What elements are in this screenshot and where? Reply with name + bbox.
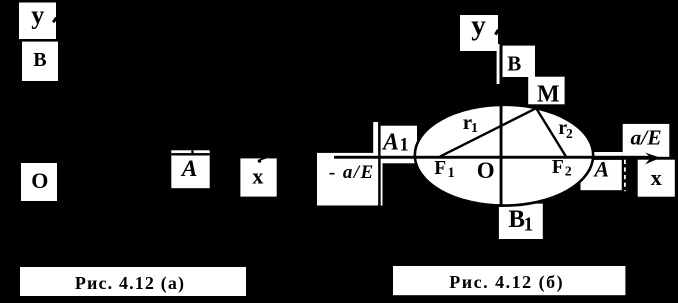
- caption box (b): [393, 266, 625, 295]
- svg-text:F: F: [434, 158, 446, 179]
- right directrix core (fig b, visible between A box and white strip): [622, 159, 624, 191]
- svg-text:B: B: [33, 49, 46, 71]
- svg-text:1: 1: [400, 135, 409, 155]
- x-axis arrowhead (fig a, visible part over x box): [260, 158, 266, 160]
- label box O (fig a): [21, 163, 57, 201]
- svg-text:a/E: a/E: [631, 126, 662, 150]
- x-axis segment crossing A box (fig a): [171, 153, 209, 155]
- label box B1 (fig b): [499, 204, 543, 239]
- svg-text:1: 1: [471, 121, 478, 136]
- label box A1 (fig b): [379, 126, 417, 164]
- label box x (fig a): [240, 158, 276, 196]
- svg-text:A: A: [593, 156, 610, 181]
- radius line r2 (M to F2): [536, 108, 566, 156]
- svg-text:2: 2: [566, 126, 573, 141]
- label box M (fig b): [528, 77, 564, 105]
- ellipse: [415, 105, 593, 206]
- svg-text:- a/E: - a/E: [329, 162, 375, 183]
- svg-text:O: O: [31, 168, 48, 193]
- label box a/E (fig b): [623, 124, 670, 157]
- label box B (fig a): [22, 42, 58, 81]
- svg-text:A: A: [180, 156, 198, 182]
- svg-text:y: y: [31, 0, 44, 29]
- x-axis core (fig b): [334, 156, 651, 159]
- svg-text:x: x: [252, 163, 263, 188]
- label box A (fig b): [581, 160, 622, 190]
- label box A (fig a, white bg extends above x-axis line): [171, 150, 209, 188]
- y-axis arrowhead (fig a, visible barb over y box): [53, 18, 56, 23]
- tick at A (fig a): [191, 150, 193, 155]
- white x-axis sliver right of ellipse (fig b): [593, 152, 623, 156]
- label box x (fig b): [638, 160, 675, 197]
- svg-text:y: y: [471, 9, 486, 41]
- svg-text:1: 1: [524, 215, 534, 236]
- svg-text:O: O: [477, 158, 495, 183]
- svg-text:Рис. 4.12 (а): Рис. 4.12 (а): [75, 273, 185, 294]
- white strip left of directrix (fig b): [373, 122, 378, 155]
- y-axis arrowhead (fig b upper part hidden on black): [501, 25, 506, 36]
- label box B (fig b): [502, 46, 536, 77]
- svg-text:1: 1: [448, 165, 455, 181]
- white strip right of directrix below axis (fig b): [381, 161, 383, 206]
- right directrix dashed white line (fig b): [624, 160, 626, 192]
- white strip left of y-axis (b): [497, 44, 500, 84]
- y-axis arrowhead (fig b, visible barb over y box): [495, 30, 498, 35]
- svg-text:Рис. 4.12 (б): Рис. 4.12 (б): [449, 272, 564, 293]
- x-axis arrowhead (fig b): [645, 153, 660, 165]
- svg-text:2: 2: [565, 163, 572, 178]
- radius line r1 (F1 to M): [440, 108, 536, 156]
- svg-text:x: x: [651, 165, 662, 190]
- svg-text:A: A: [381, 129, 399, 155]
- left directrix core (fig b): [378, 122, 380, 206]
- svg-text:F: F: [552, 157, 564, 178]
- label box y (fig b): [460, 15, 498, 51]
- svg-text:M: M: [537, 82, 560, 108]
- svg-text:B: B: [507, 51, 521, 75]
- y-axis core (fig b): [500, 29, 503, 207]
- label box y (fig a): [19, 3, 56, 40]
- label box -a/E (fig b): [317, 153, 378, 206]
- caption box (a): [20, 267, 246, 296]
